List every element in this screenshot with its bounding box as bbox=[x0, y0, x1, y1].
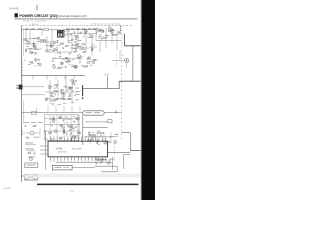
svg-text:*: * bbox=[123, 54, 124, 58]
svg-text:(Schematic Diagram 2/4): (Schematic Diagram 2/4) bbox=[57, 14, 87, 18]
svg-text:SA-B45: SA-B45 bbox=[9, 7, 19, 11]
svg-text:Voltages at no-signal input: Voltages at no-signal input bbox=[23, 19, 47, 22]
svg-text:SA-B45: SA-B45 bbox=[4, 187, 12, 190]
svg-text:SI-7230M: SI-7230M bbox=[72, 149, 82, 151]
svg-text:- 31 -: - 31 - bbox=[69, 190, 75, 193]
svg-text:POWER CIRCUIT (2/2): POWER CIRCUIT (2/2) bbox=[19, 14, 58, 18]
svg-text:IC401: IC401 bbox=[56, 148, 63, 151]
